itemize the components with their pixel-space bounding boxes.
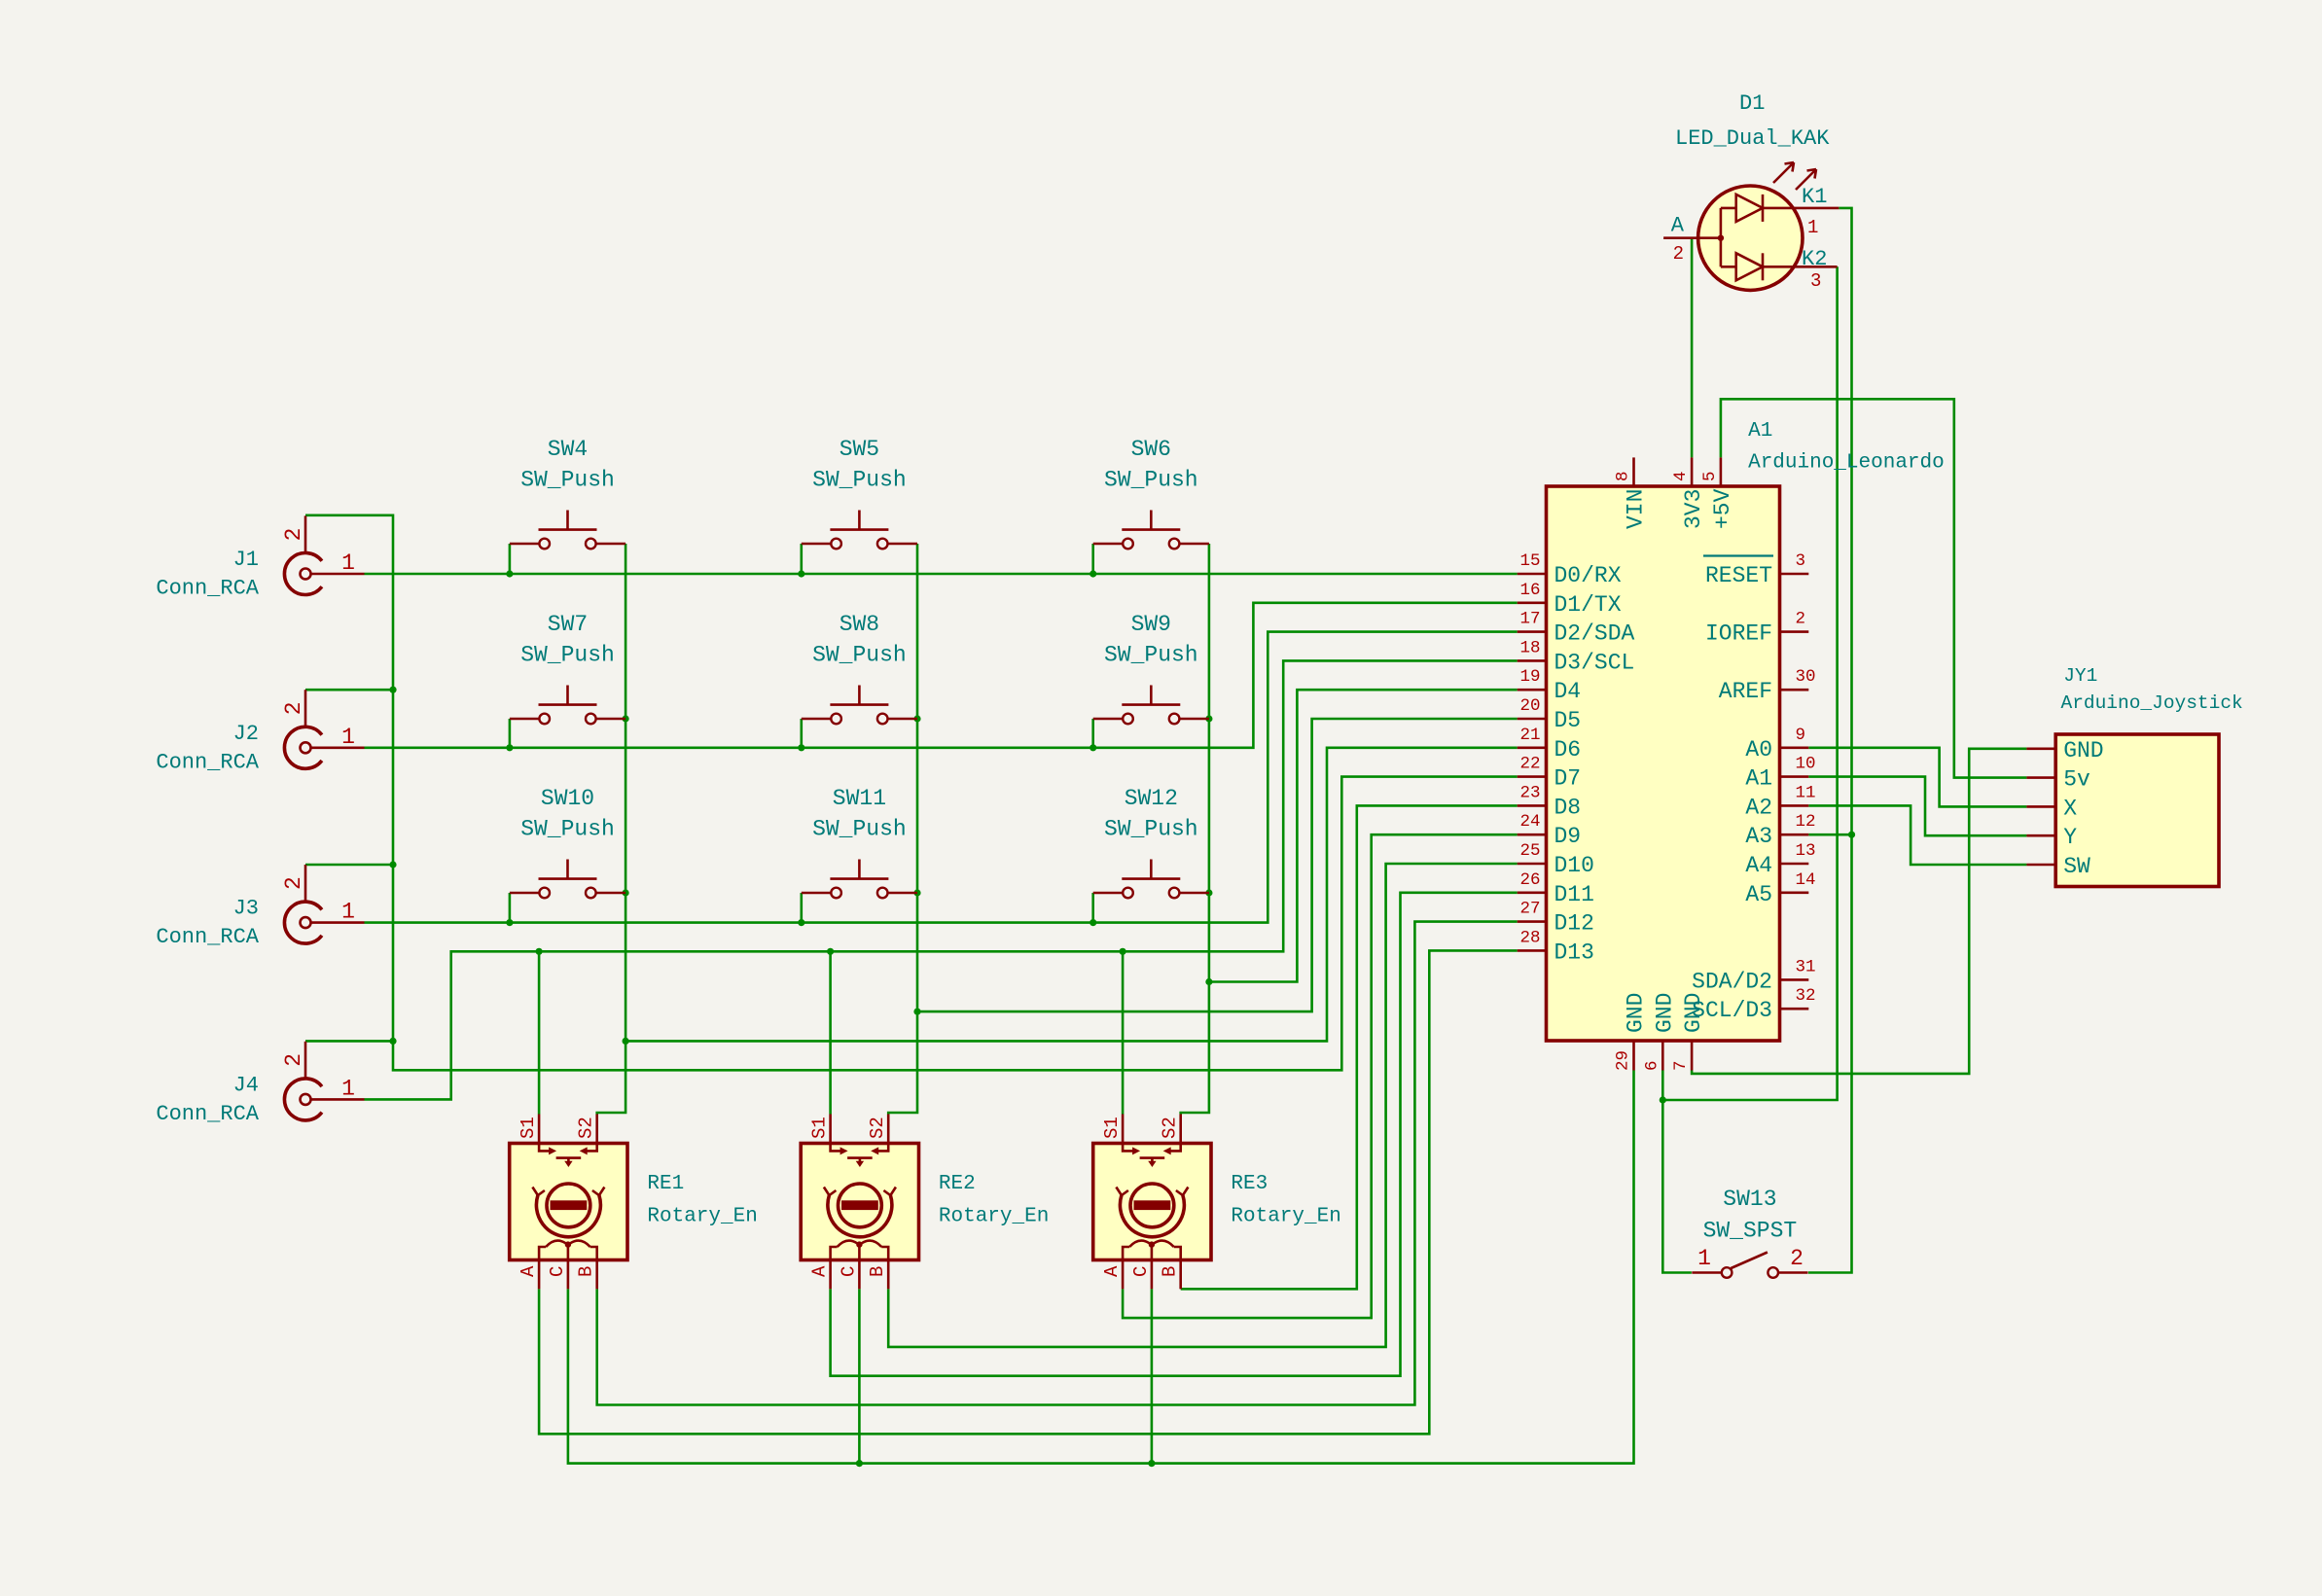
svg-text:1: 1	[341, 900, 355, 925]
A1 pin 18 D3/SCL	[1518, 638, 1635, 675]
Arduino A1 Arduino_Leonardo body	[1547, 486, 1780, 1041]
svg-text:A1: A1	[1745, 766, 1772, 792]
wire net D11: RE2 A to D11	[831, 893, 1518, 1376]
svg-text:GND: GND	[1624, 993, 1649, 1033]
wire net D12: RE1 B to D12	[597, 922, 1518, 1405]
svg-text:A: A	[518, 1265, 539, 1277]
svg-text:S2: S2	[576, 1117, 597, 1139]
svg-text:SW10: SW10	[541, 786, 594, 811]
wire net D0: J1 pin1 row to Arduino D0/RX	[365, 573, 1518, 576]
A1 pin 22 D7	[1518, 755, 1581, 792]
switch SW6 SW_Push	[1093, 437, 1209, 549]
switch SW4 SW_Push	[510, 437, 625, 549]
A1 top pin 5 +5V	[1700, 457, 1735, 529]
svg-text:9: 9	[1796, 726, 1806, 745]
A1 pin 2 IOREF	[1705, 610, 1808, 647]
svg-text:D1: D1	[1739, 91, 1765, 116]
svg-text:23: 23	[1519, 783, 1540, 802]
A1 pin 15 D0/RX	[1518, 551, 1622, 588]
svg-text:2: 2	[281, 876, 306, 890]
A1 pin 13 A4	[1745, 841, 1815, 878]
A1 pin 20 D5	[1518, 696, 1581, 733]
svg-text:A2: A2	[1745, 795, 1772, 820]
svg-text:15: 15	[1519, 551, 1540, 571]
A1 top pin 8 VIN	[1614, 457, 1649, 529]
A1 pin 14 A5	[1745, 870, 1815, 907]
svg-text:SW_Push: SW_Push	[520, 643, 615, 668]
svg-text:RE1: RE1	[647, 1173, 684, 1195]
svg-text:SW12: SW12	[1125, 786, 1178, 811]
svg-text:18: 18	[1519, 638, 1540, 657]
svg-text:2: 2	[281, 528, 306, 542]
svg-text:LED_Dual_KAK: LED_Dual_KAK	[1675, 126, 1830, 151]
svg-text:S2: S2	[867, 1117, 888, 1139]
switch SW11 SW_Push	[802, 786, 917, 898]
wire net D1: J2 pin1 row, jog up to D1/TX	[365, 603, 1518, 748]
svg-text:J4: J4	[233, 1073, 259, 1097]
wire net D10: RE2 B to D10	[888, 864, 1517, 1347]
svg-text:20: 20	[1519, 696, 1540, 716]
svg-text:31: 31	[1796, 957, 1816, 976]
A1 pin 30 AREF	[1719, 667, 1816, 704]
wire A3 stub to K1 vertical	[1808, 833, 1851, 836]
svg-text:SW7: SW7	[548, 612, 588, 637]
A1 pin 28 D13	[1518, 928, 1594, 965]
junction dot at A3 on K1 vertical	[1848, 832, 1855, 838]
svg-text:D11: D11	[1554, 882, 1594, 907]
svg-text:8: 8	[1614, 471, 1633, 481]
svg-text:D12: D12	[1554, 911, 1594, 937]
LED D1 LED_Dual_KAK	[1663, 91, 1839, 292]
svg-text:GND: GND	[2063, 738, 2103, 763]
wire net D4: SW6 column vertical, row to D4, jog to RE3 S2	[1181, 544, 1209, 1115]
JY1 pin X	[2026, 796, 2077, 821]
svg-text:AREF: AREF	[1719, 679, 1772, 704]
svg-text:A3: A3	[1745, 824, 1772, 849]
JY1 pin Y	[2026, 825, 2077, 850]
svg-text:RE2: RE2	[939, 1173, 976, 1195]
svg-text:3V3: 3V3	[1681, 489, 1706, 529]
A1 pin 11 A2	[1745, 783, 1815, 820]
switch SW9 SW_Push	[1093, 612, 1209, 724]
svg-text:B: B	[576, 1266, 597, 1277]
svg-text:1: 1	[1807, 217, 1818, 238]
wire net +5V: Arduino pin5 up, across, down to joystick 5v	[1721, 399, 2026, 777]
svg-text:26: 26	[1519, 870, 1540, 890]
svg-text:SW8: SW8	[839, 612, 879, 637]
svg-text:SW_Push: SW_Push	[1104, 643, 1198, 668]
svg-text:1: 1	[341, 1076, 355, 1101]
svg-text:C: C	[547, 1266, 568, 1277]
rotary encoder RE2 Rotary_En	[801, 1115, 1049, 1290]
svg-text:6: 6	[1642, 1060, 1661, 1071]
svg-text:D9: D9	[1554, 824, 1582, 849]
A1 pin 9 A0	[1745, 726, 1808, 763]
svg-text:1: 1	[341, 550, 355, 576]
svg-text:J3: J3	[233, 897, 259, 921]
svg-text:S2: S2	[1160, 1117, 1181, 1139]
wire net D9: RE3 A to D9	[1123, 834, 1518, 1318]
svg-text:SW11: SW11	[833, 786, 886, 811]
svg-text:S1: S1	[1101, 1117, 1123, 1139]
svg-text:1: 1	[341, 725, 355, 750]
A1 pin 17 D2/SDA	[1518, 610, 1635, 647]
svg-text:Conn_RCA: Conn_RCA	[156, 925, 259, 949]
svg-text:D8: D8	[1554, 795, 1582, 820]
connector J3 Conn_RCA	[156, 865, 364, 949]
junction dots on SW5 column	[913, 715, 920, 722]
svg-text:B: B	[867, 1266, 888, 1277]
switch SW8 SW_Push	[802, 612, 917, 724]
svg-text:A0: A0	[1745, 737, 1772, 763]
svg-text:B: B	[1160, 1266, 1181, 1277]
svg-text:IOREF: IOREF	[1705, 621, 1772, 647]
svg-text:21: 21	[1519, 726, 1540, 745]
svg-text:J2: J2	[233, 722, 259, 746]
svg-text:4: 4	[1671, 471, 1691, 481]
wire net K1: LED K1 down to A3 and SW13 pin2	[1808, 208, 1852, 1273]
wire J2 pin2 to bus	[305, 689, 393, 692]
wire J3 pin2 to bus	[305, 864, 393, 867]
svg-text:3: 3	[1810, 270, 1821, 292]
svg-text:Arduino_Joystick: Arduino_Joystick	[2061, 692, 2243, 714]
wire net D6: SW4 column vertical, row to D6, jog to RE1 S2	[597, 544, 625, 1115]
svg-text:RE3: RE3	[1231, 1173, 1268, 1195]
svg-text:SW4: SW4	[548, 437, 588, 462]
wire RE1 S1 drop from D3 bus	[538, 951, 541, 1114]
svg-text:2: 2	[1796, 610, 1806, 629]
junction dots on GND bus	[856, 1460, 863, 1467]
JY1 pin GND	[2026, 738, 2103, 763]
wire net 3V3: LED A down to Arduino pin4	[1691, 238, 1694, 458]
svg-text:24: 24	[1519, 812, 1540, 832]
svg-text:14: 14	[1796, 870, 1816, 890]
svg-text:SW9: SW9	[1131, 612, 1171, 637]
rotary encoder RE1 Rotary_En	[510, 1115, 758, 1290]
svg-text:28: 28	[1519, 928, 1540, 947]
svg-text:SW_SPST: SW_SPST	[1703, 1219, 1798, 1244]
svg-text:7: 7	[1671, 1060, 1691, 1071]
switch SW10 SW_Push	[510, 786, 625, 898]
A1 pin 31 SDA/D2	[1692, 957, 1815, 994]
svg-text:SW_Push: SW_Push	[812, 643, 907, 668]
svg-text:13: 13	[1796, 841, 1816, 861]
wire net GND: LED K2 down to pin6 vertical	[1662, 266, 1837, 1100]
svg-text:12: 12	[1796, 812, 1816, 832]
svg-text:29: 29	[1614, 1050, 1633, 1071]
svg-text:+5V: +5V	[1710, 488, 1735, 529]
junction dots on SW4 column	[623, 715, 629, 722]
wire net D7: J pin2 bus (J1-J4) down and across to D7	[305, 515, 1518, 1071]
svg-text:5v: 5v	[2063, 767, 2090, 793]
svg-text:Conn_RCA: Conn_RCA	[156, 577, 259, 601]
svg-text:D2/SDA: D2/SDA	[1554, 621, 1635, 647]
svg-text:Rotary_En: Rotary_En	[1231, 1205, 1340, 1227]
rotary encoder RE3 Rotary_En	[1093, 1115, 1341, 1290]
junction dot on pin6 vertical at K2 branch	[1660, 1096, 1666, 1103]
svg-text:SW_Push: SW_Push	[1104, 817, 1198, 842]
junction dots on D3/S1 bus row	[536, 948, 543, 955]
A1 pin 19 D4	[1518, 667, 1581, 704]
svg-text:D5: D5	[1554, 708, 1582, 733]
svg-text:C: C	[838, 1266, 859, 1277]
svg-text:Rotary_En: Rotary_En	[939, 1205, 1049, 1227]
svg-text:2: 2	[281, 701, 306, 715]
wire net A2 to joystick SW	[1808, 805, 2026, 865]
svg-text:SW_Push: SW_Push	[1104, 468, 1198, 493]
wire J4 pin2 to bus	[305, 1040, 393, 1043]
wire RE3 C drop	[1151, 1289, 1154, 1463]
svg-text:22: 22	[1519, 755, 1540, 774]
svg-text:GND: GND	[1652, 993, 1677, 1033]
JY1 pin 5v	[2026, 767, 2090, 793]
wires: switch left leads drop to J row wires	[509, 544, 512, 574]
svg-text:SW: SW	[2063, 854, 2090, 879]
svg-text:D13: D13	[1554, 940, 1594, 965]
wire net GND: Arduino pin6 down to SW13 pin1	[1662, 1071, 1692, 1273]
svg-text:A: A	[809, 1265, 831, 1277]
svg-text:D4: D4	[1554, 679, 1582, 704]
svg-text:Arduino_Leonardo: Arduino_Leonardo	[1748, 452, 1945, 475]
svg-text:VIN: VIN	[1624, 489, 1649, 529]
svg-text:27: 27	[1519, 900, 1540, 919]
svg-text:SW_Push: SW_Push	[812, 817, 907, 842]
junction dots where switch left leads meet J rows	[506, 570, 513, 577]
svg-text:SW5: SW5	[839, 437, 879, 462]
svg-text:D10: D10	[1554, 853, 1594, 878]
A1 pin 23 D8	[1518, 783, 1581, 820]
svg-text:Conn_RCA: Conn_RCA	[156, 750, 259, 774]
connector J4 Conn_RCA	[156, 1042, 364, 1126]
svg-text:D0/RX: D0/RX	[1554, 563, 1622, 588]
svg-text:SDA/D2: SDA/D2	[1692, 969, 1772, 994]
svg-text:19: 19	[1519, 667, 1540, 687]
wire net D13: RE1 A to D13	[539, 950, 1518, 1434]
wire RE3 S1 drop from D3 bus	[1122, 951, 1125, 1114]
svg-text:Y: Y	[2063, 825, 2077, 850]
svg-text:D7: D7	[1554, 766, 1582, 792]
A1 pin 16 D1/TX	[1518, 581, 1622, 618]
wire net A1 to joystick Y	[1808, 777, 2026, 836]
A1 pin 3 RESET	[1703, 551, 1808, 588]
svg-text:16: 16	[1519, 581, 1540, 600]
wire net D2: J3 pin1 row, jog up to D2/SDA	[365, 632, 1518, 923]
svg-text:RESET: RESET	[1705, 563, 1772, 588]
wire net A0 to joystick X	[1808, 748, 2026, 807]
junction dots on SW6 column	[1205, 715, 1212, 722]
A1 bottom pin 7 GND	[1671, 993, 1706, 1071]
svg-text:3: 3	[1796, 551, 1806, 571]
svg-text:2: 2	[1673, 243, 1684, 265]
svg-text:Conn_RCA: Conn_RCA	[156, 1102, 259, 1126]
wire net GND: Arduino pin7 across to joystick GND	[1692, 749, 2026, 1074]
svg-text:11: 11	[1796, 783, 1816, 802]
A1 bottom pin 29 GND	[1614, 993, 1649, 1071]
svg-text:17: 17	[1519, 610, 1540, 629]
svg-text:GND: GND	[1681, 993, 1706, 1033]
svg-text:SW_Push: SW_Push	[812, 468, 907, 493]
svg-text:SW_Push: SW_Push	[520, 817, 615, 842]
svg-text:1: 1	[1697, 1246, 1711, 1271]
svg-text:X: X	[2063, 796, 2077, 821]
svg-text:A5: A5	[1745, 882, 1772, 907]
A1 pin 24 D9	[1518, 812, 1581, 849]
svg-text:SW_Push: SW_Push	[520, 468, 615, 493]
svg-text:A: A	[1671, 214, 1685, 238]
wire net D5: SW5 column vertical, row to D5, jog to RE2 S2	[888, 544, 917, 1115]
svg-text:SW6: SW6	[1131, 437, 1171, 462]
A1 pin 27 D12	[1518, 900, 1594, 937]
svg-text:Rotary_En: Rotary_En	[647, 1205, 757, 1227]
switch SW13 SW_SPST	[1692, 1187, 1807, 1278]
svg-text:JY1: JY1	[2063, 665, 2097, 687]
wire RE2 S1 drop from D3 bus	[829, 951, 832, 1114]
wire RE2 C drop	[858, 1289, 861, 1463]
svg-text:S1: S1	[809, 1117, 831, 1139]
svg-text:SW13: SW13	[1723, 1187, 1776, 1212]
JY1 pin SW	[2026, 854, 2090, 879]
svg-text:D1/TX: D1/TX	[1554, 592, 1622, 618]
A1 pin 32 SCL/D3	[1692, 986, 1815, 1023]
A1 pin 10 A1	[1745, 755, 1815, 792]
svg-text:K2: K2	[1802, 247, 1827, 271]
svg-text:2: 2	[281, 1053, 306, 1067]
svg-text:C: C	[1130, 1266, 1152, 1277]
wire net D8: RE3 B to D8	[1181, 805, 1518, 1289]
svg-text:K1: K1	[1802, 185, 1827, 209]
A1 pin 21 D6	[1518, 726, 1581, 763]
switch SW7 SW_Push	[510, 612, 625, 724]
junction dots on J pin2 bus	[389, 687, 396, 693]
connector J2 Conn_RCA	[156, 690, 364, 774]
svg-text:32: 32	[1796, 986, 1816, 1006]
A1 top pin 4 3V3	[1671, 457, 1706, 529]
A1 pin 25 D10	[1518, 841, 1594, 878]
switch SW5 SW_Push	[802, 437, 917, 549]
wire net GND: C pins bus to Arduino pin29	[568, 1071, 1634, 1464]
svg-text:D3/SCL: D3/SCL	[1554, 650, 1635, 675]
switch SW12 SW_Push	[1093, 786, 1209, 898]
svg-text:A1: A1	[1748, 420, 1772, 443]
connector J1 Conn_RCA	[156, 515, 364, 600]
svg-text:D6: D6	[1554, 737, 1582, 763]
svg-text:A4: A4	[1745, 853, 1772, 878]
svg-text:5: 5	[1700, 471, 1720, 481]
wire net D3: J4 pin1 up to S1 bus row then to D3/SCL	[365, 660, 1518, 1099]
svg-text:2: 2	[1790, 1246, 1804, 1271]
svg-text:S1: S1	[518, 1117, 539, 1139]
svg-text:30: 30	[1796, 667, 1816, 687]
joystick JY1 Arduino_Joystick body	[2055, 734, 2219, 887]
A1 bottom pin 6 GND	[1642, 993, 1677, 1071]
svg-text:10: 10	[1796, 755, 1816, 774]
svg-text:25: 25	[1519, 841, 1540, 861]
svg-text:A: A	[1101, 1265, 1123, 1277]
A1 pin 26 D11	[1518, 870, 1594, 907]
svg-text:J1: J1	[233, 548, 259, 572]
A1 pin 12 A3	[1745, 812, 1815, 849]
